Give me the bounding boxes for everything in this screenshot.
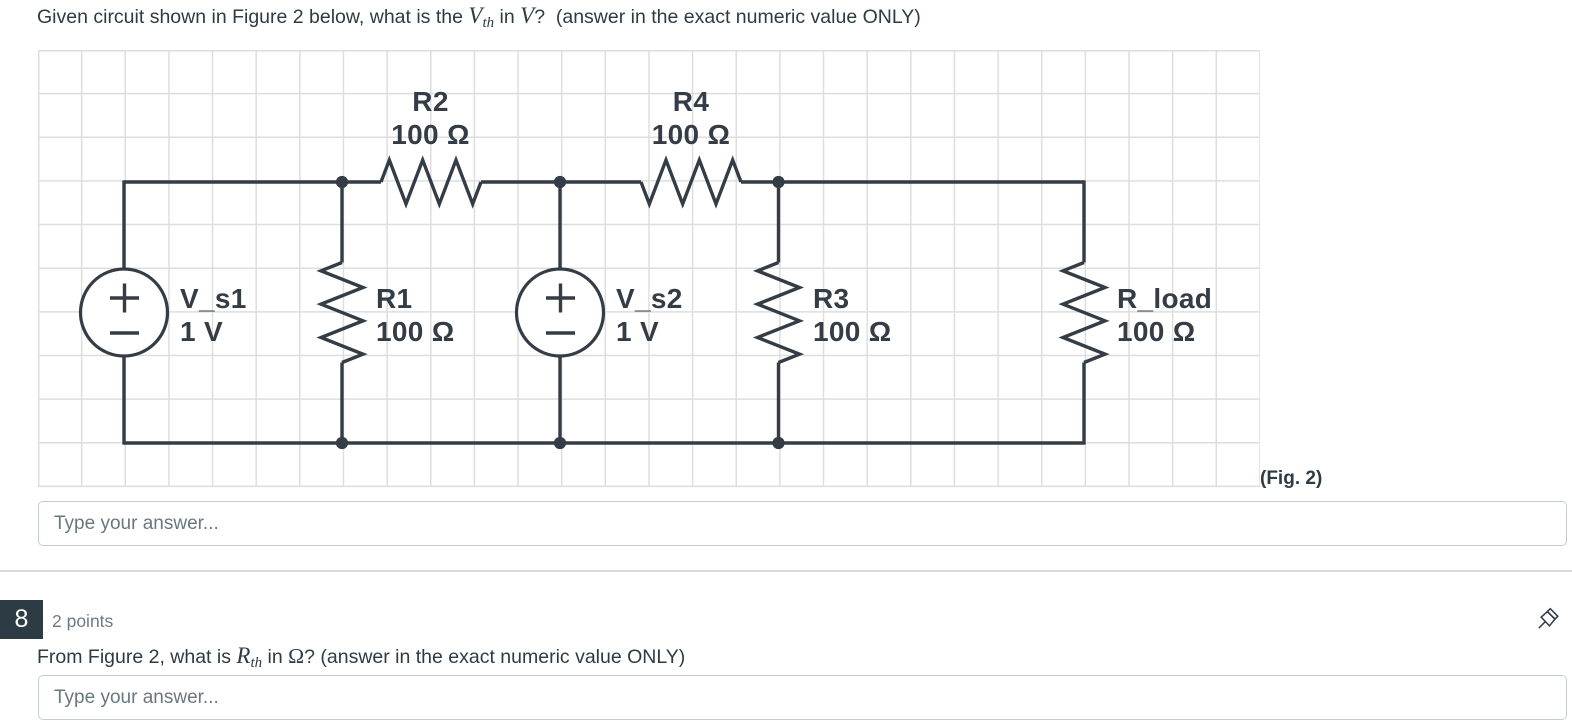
wire R_load branch bbox=[1082, 180, 1085, 444]
svg-text:1 V: 1 V bbox=[180, 316, 223, 347]
svg-text:R3: R3 bbox=[813, 283, 849, 314]
wire bottom rail bbox=[124, 441, 1084, 444]
question 7 text bbox=[37, 3, 921, 29]
svg-text:100 Ω: 100 Ω bbox=[376, 316, 454, 347]
question 8 text bbox=[37, 643, 685, 669]
svg-text:V_s1: V_s1 bbox=[180, 283, 247, 314]
svg-text:100 Ω: 100 Ω bbox=[391, 119, 469, 150]
node bottom V_s2 bbox=[554, 437, 566, 449]
svg-text:V_s2: V_s2 bbox=[616, 283, 683, 314]
node bottom R3 bbox=[772, 437, 784, 449]
question number 8 bbox=[0, 600, 43, 639]
svg-text:100 Ω: 100 Ω bbox=[1117, 316, 1195, 347]
node top V_s2 bbox=[554, 176, 566, 188]
figure grid bbox=[38, 50, 1260, 489]
svg-text:R1: R1 bbox=[376, 283, 412, 314]
pin icon bbox=[1537, 606, 1563, 632]
divider bbox=[0, 570, 1572, 572]
svg-text:R2: R2 bbox=[412, 86, 448, 117]
voltage source V_s2 bbox=[517, 269, 604, 356]
node bottom R1 bbox=[336, 437, 348, 449]
svg-text:100 Ω: 100 Ω bbox=[652, 119, 730, 150]
svg-text:100 Ω: 100 Ω bbox=[813, 316, 891, 347]
resistor R2 bbox=[381, 160, 481, 204]
answer input 1 bbox=[38, 501, 1567, 546]
node top R3 bbox=[772, 176, 784, 188]
resistor R4 bbox=[641, 160, 741, 204]
wire V_s2 branch bbox=[558, 182, 561, 443]
resistor R1 bbox=[321, 263, 363, 363]
wire R1 branch bbox=[340, 182, 343, 443]
svg-text:R4: R4 bbox=[673, 86, 710, 117]
svg-text:1 V: 1 V bbox=[616, 316, 659, 347]
wire left branch (V_s1) bbox=[122, 180, 125, 444]
wire top rail bbox=[124, 180, 1084, 183]
svg-text:R_load: R_load bbox=[1117, 283, 1212, 314]
node top R1 bbox=[336, 176, 348, 188]
figure caption (Fig. 2) bbox=[1260, 468, 1322, 490]
resistor R3 bbox=[758, 263, 800, 363]
points label bbox=[52, 611, 113, 632]
answer input 2 bbox=[38, 675, 1567, 720]
resistor R_load bbox=[1063, 263, 1105, 363]
voltage source V_s1 bbox=[81, 269, 168, 356]
wire R3 branch bbox=[777, 182, 780, 443]
